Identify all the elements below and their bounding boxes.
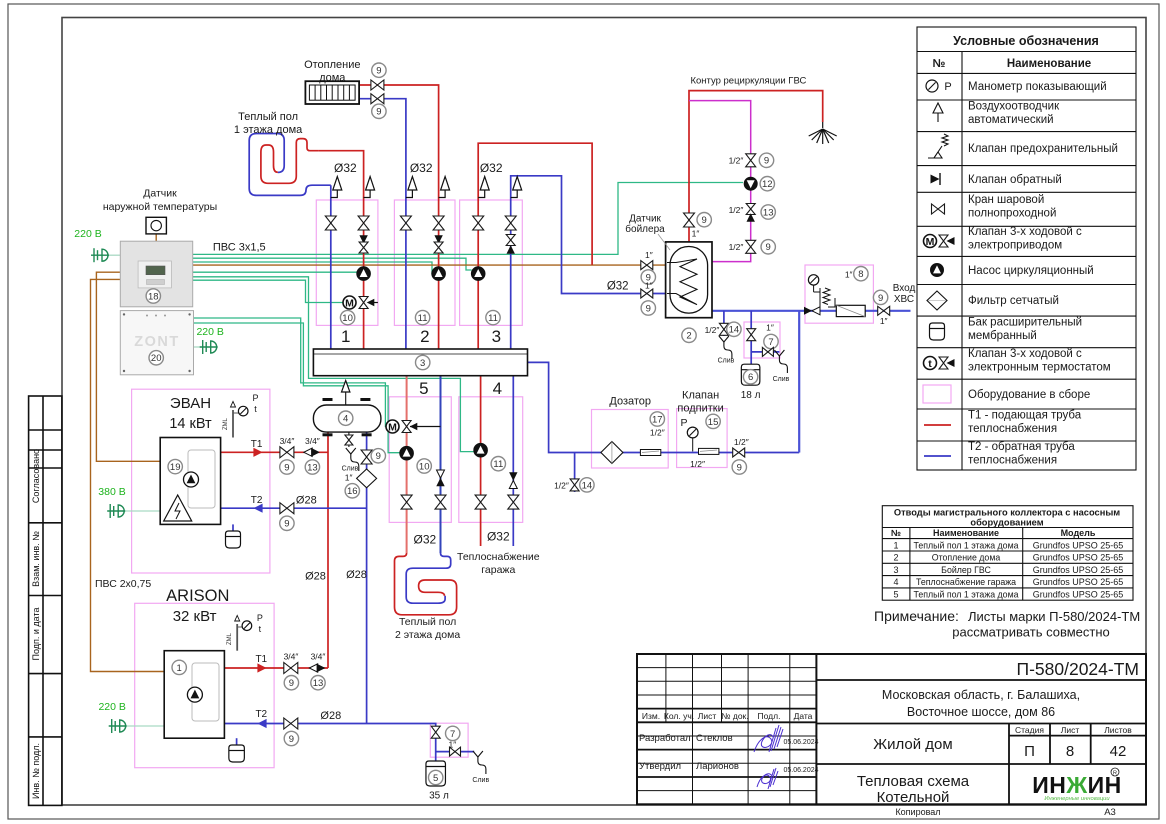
svg-text:10: 10 [419,461,430,472]
pump g5 [400,446,414,460]
pipe boiler trunk T1 [327,432,329,668]
svg-text:18 л: 18 л [741,390,761,401]
valve radiator supply [371,80,384,90]
pipe hvs main [712,310,911,312]
valve riser g1 red [358,216,369,230]
svg-text:Т1 - подающая труба: Т1 - подающая труба [968,410,1082,422]
pipe makeup line [528,362,800,452]
equipment group4 box [459,397,523,523]
label circle 7 [764,334,778,348]
label circle 9 [372,104,386,118]
pipe gvs supply up-over [478,143,592,349]
ARISON expansion tank [229,745,245,762]
svg-text:Фильтр сетчатый: Фильтр сетчатый [968,295,1059,307]
svg-text:мембранный: мембранный [968,330,1037,342]
EVAN P t gauge [232,410,234,438]
label circle 9 [873,290,887,304]
svg-text:рассматривать совместно: рассматривать совместно [952,625,1110,640]
svg-text:9: 9 [376,107,381,118]
svg-text:Теплый пол 1 этажа дома: Теплый пол 1 этажа дома [913,590,1018,600]
svg-text:Подп. и дата: Подп. и дата [31,607,41,660]
svg-text:11: 11 [418,313,428,324]
pipe boiler trunk T2 [366,432,368,723]
ARISON P t gauge [236,624,238,651]
svg-text:подпитки: подпитки [677,403,723,415]
hydro separator 4 [313,405,381,432]
ZONT unit 20 [120,311,193,375]
svg-text:Модель: Модель [1061,528,1096,538]
legend table Условные обозначения [917,27,1136,470]
legend sym manometer [926,80,938,92]
svg-text:электроприводом: электроприводом [968,240,1062,252]
valve evan T2 [280,503,294,514]
svg-text:1/2″: 1/2″ [729,242,744,252]
valve g5 blue [435,495,446,509]
svg-text:Отопление дома: Отопление дома [932,553,1001,563]
svg-text:3/4″: 3/4″ [284,652,299,662]
check valve g5 blue [437,470,445,478]
label circle 9 [641,301,655,315]
svg-text:Т2 - обратная труба: Т2 - обратная труба [968,441,1075,453]
wire pump g5 ctrl [194,323,400,453]
wire evan plug stub [122,510,160,512]
svg-text:M: M [388,421,397,433]
svg-text:1: 1 [893,540,898,550]
svg-text:Согласовано: Согласовано [31,449,41,503]
podpitka gauge [692,438,694,451]
valve g4 red [475,495,486,509]
plug 220V zont [200,340,218,354]
legend sym air vent [933,103,943,122]
svg-text:14: 14 [582,480,593,491]
equipment filter8 box [805,265,873,323]
svg-text:ЭВАН: ЭВАН [170,395,211,412]
svg-text:11: 11 [488,313,498,324]
svg-text:5: 5 [893,590,898,600]
svg-text:P: P [252,393,258,403]
wire controller plug stub [109,254,120,256]
svg-text:1/2″: 1/2″ [650,428,665,438]
check valve g4 blue [509,472,517,480]
check valve evan T1 [304,448,312,456]
svg-text:Клапан обратный: Клапан обратный [968,174,1062,186]
pipe arison T2 and tank5 [224,724,435,762]
svg-text:1″: 1″ [645,281,653,291]
svg-text:Бойлер ГВС: Бойлер ГВС [941,565,991,575]
svg-text:Кол. уч.: Кол. уч. [664,711,694,721]
label circle 8 [854,267,868,281]
check valve g1 red [359,235,367,243]
legend sym T2 line [924,455,951,457]
svg-text:9: 9 [289,734,294,745]
wire pump g2 ctrl [193,262,432,274]
svg-text:Слив: Слив [773,376,790,383]
svg-text:5: 5 [419,379,428,398]
wire mvalve g1 ctrl [193,280,346,302]
svg-text:4: 4 [493,379,502,398]
wire zont plug stub [194,346,202,348]
svg-text:Контур рециркуляции ГВС: Контур рециркуляции ГВС [690,76,806,87]
svg-text:1: 1 [177,663,182,674]
valve magenta 9b [746,240,756,253]
valve gvs hot in [641,261,653,270]
svg-text:42: 42 [1110,743,1127,760]
label circle 9 [759,153,773,167]
pipe floor1 return riser [330,185,332,349]
svg-text:Наименование: Наименование [933,528,999,538]
pipe tank6 branch [750,311,752,364]
label circle 9 [284,731,298,745]
svg-text:2: 2 [686,331,691,342]
wire pump g3 ctrl [193,258,472,270]
svg-text:1″: 1″ [345,473,353,483]
svg-text:Подл.: Подл. [758,711,781,721]
svg-text:6: 6 [748,372,753,383]
pipe evan T1 [221,451,328,453]
svg-text:Дата: Дата [794,711,813,721]
label circle 10 [417,459,431,473]
left stamp column [29,396,62,805]
svg-text:Ø32: Ø32 [607,281,629,293]
svg-text:Московская область, г. Балаших: Московская область, г. Балашиха, [882,688,1080,702]
EVAN T2 arrow [253,504,262,513]
equipment valve7 box [744,322,780,358]
valve tank5 [431,726,440,738]
valve g5 red [401,495,412,509]
sliv hook tank5 [473,751,486,774]
equipment EVAN box [132,389,270,573]
svg-text:ARISON: ARISON [166,587,229,605]
pipe group5 riser blue [440,376,442,553]
shower symbol [809,122,837,144]
valve evan T1 [280,447,294,458]
equipment dozator box [592,410,669,469]
svg-text:32 кВт: 32 кВт [173,608,217,625]
svg-text:3: 3 [420,358,425,369]
wire to ARISON boiler [91,279,165,671]
controller 18 [120,241,192,307]
ARISON T2 arrow [257,719,266,728]
svg-text:T2: T2 [251,495,263,506]
svg-text:4: 4 [893,577,898,587]
label circle 9 [697,213,711,227]
svg-text:9: 9 [702,215,707,226]
label circle 14 [727,322,741,336]
dozator device [640,450,660,456]
svg-text:1″: 1″ [645,250,653,260]
svg-text:P: P [944,81,951,93]
svg-text:17: 17 [652,414,663,425]
svg-text:ХВС: ХВС [894,294,914,305]
svg-text:M: M [926,236,935,248]
svg-text:3/4″: 3/4″ [280,436,295,446]
label circle 9 [284,676,298,690]
label circle 20 [149,351,163,365]
svg-text:15: 15 [708,417,719,428]
svg-text:Лист: Лист [698,711,717,721]
pump g4 [474,443,488,457]
valve on separator return [361,450,372,464]
separator flanges [323,400,372,435]
label circle 7 [446,726,460,740]
svg-text:Теплый пол: Теплый пол [399,616,456,628]
svg-text:Ø28: Ø28 [305,571,326,583]
valve 7 top [747,329,756,341]
svg-text:ZML: ZML [223,417,229,430]
label circle 9 [280,460,294,474]
label circle 15 [706,414,720,428]
separator drain sliv [346,448,359,471]
svg-text:4: 4 [343,414,348,425]
svg-text:Grundfos UPSO 25-65: Grundfos UPSO 25-65 [1033,565,1124,575]
valve riser g3 blue [505,216,516,230]
svg-text:1/2″: 1/2″ [729,156,744,166]
sliv hook 14 [719,336,732,359]
svg-text:Насос циркуляционный: Насос циркуляционный [968,265,1094,277]
svg-text:3/4″: 3/4″ [305,436,320,446]
legend sym safety valve [928,134,948,158]
svg-text:220 В: 220 В [196,326,223,338]
svg-text:Бак расширительный: Бак расширительный [968,317,1082,329]
pipe gvs tank feed [511,176,666,349]
legend sym T1 line [924,424,951,426]
label circle 9 [280,516,294,530]
label circle 9 [732,460,746,474]
tank 5 35l [426,761,446,786]
wire to EVAN boiler [96,272,160,461]
svg-text:Теплый пол 1 этажа дома: Теплый пол 1 этажа дома [913,540,1018,550]
svg-text:1/2″: 1/2″ [554,480,569,490]
title block [637,654,1146,804]
svg-text:А3: А3 [1104,807,1116,818]
svg-text:теплоснабжения: теплоснабжения [968,455,1057,467]
svg-text:5: 5 [433,773,438,784]
svg-text:220 В: 220 В [98,701,125,713]
svg-text:18: 18 [148,291,159,302]
svg-text:Копировал: Копировал [895,807,940,817]
label circle 13 [305,460,319,474]
valve riser g2 blue [400,216,411,230]
svg-text:35 л: 35 л [429,791,449,802]
check valve g2 red [434,235,442,243]
svg-text:оборудованием: оборудованием [970,517,1043,527]
svg-text:Утвердил: Утвердил [639,761,681,772]
label circle 19 [168,459,182,473]
valve sliv 14 [719,323,728,335]
pipe arison T1 [224,667,328,669]
signatures [754,725,783,789]
svg-text:7: 7 [768,337,773,348]
svg-text:13: 13 [313,678,324,689]
svg-text:9: 9 [878,293,883,304]
outdoor temp sensor [146,217,166,234]
svg-text:T1: T1 [255,654,267,665]
svg-text:13: 13 [307,462,318,473]
check valve arison T1 [309,664,317,672]
label circle 10 [340,310,354,324]
sliv hook tank6 [774,350,787,373]
label circle 3 [416,355,430,369]
pipe floor1 coil blue [249,134,331,196]
svg-text:П-580/2024-ТМ: П-580/2024-ТМ [1017,659,1140,679]
svg-text:наружной температуры: наружной температуры [103,201,217,213]
valve riser g2 red [433,216,444,230]
svg-text:теплоснабжения: теплоснабжения [968,423,1057,435]
svg-text:1/2″: 1/2″ [729,205,744,215]
svg-text:Ø32: Ø32 [334,161,357,175]
svg-text:автоматический: автоматический [968,114,1054,126]
svg-text:Вход: Вход [893,283,916,294]
3way valve g5 [410,426,441,428]
pipe radiator supply [359,85,439,349]
svg-text:Восточное шоссе, дом 86: Восточное шоссе, дом 86 [907,705,1055,719]
svg-text:14 кВт: 14 кВт [169,416,212,432]
label circle 11 [415,310,429,324]
svg-text:Клапан 3-х ходовой с: Клапан 3-х ходовой с [968,348,1082,360]
pipe hvs vertical [798,311,800,453]
svg-text:Примечание:: Примечание: [874,608,959,624]
svg-text:ПВС 3x1,5: ПВС 3x1,5 [213,242,266,254]
wire arison plug stub [124,725,164,727]
svg-text:Наименование: Наименование [1007,58,1091,70]
svg-text:Ø28: Ø28 [346,569,367,581]
valve gvs top [684,213,695,227]
EVAN T1 arrow [253,448,262,457]
legend sym 3way thermostat valve [924,357,937,370]
legend sym filter [927,291,947,310]
svg-text:1″: 1″ [845,269,853,279]
svg-text:2: 2 [420,327,429,346]
svg-text:05.06.2024: 05.06.2024 [783,739,818,746]
svg-text:1″: 1″ [766,323,774,333]
pipe evan tank stub [232,524,234,531]
separator drain valve [348,432,350,447]
svg-text:№: № [891,528,901,538]
pipe group4 riser red [480,376,482,546]
hvs filter cylinder [836,305,865,316]
svg-text:3: 3 [492,327,501,346]
svg-text:Теплоснабжение: Теплоснабжение [457,551,540,563]
logo INGIN [1032,768,1122,802]
svg-text:№ док.: № док. [721,711,748,721]
svg-text:Ø32: Ø32 [487,530,510,544]
valve riser g3 red [473,216,484,230]
svg-text:1: 1 [341,327,350,346]
svg-text:Жилой дом: Жилой дом [873,736,952,753]
svg-text:Условные обозначения: Условные обозначения [953,34,1099,48]
pump outlets table [882,506,1133,601]
svg-text:Ø32: Ø32 [410,161,433,175]
svg-text:1/2″: 1/2″ [690,459,705,469]
svg-text:2: 2 [893,553,898,563]
wire pump g1 ctrl [193,271,357,273]
svg-text:ПВС 2x0,75: ПВС 2x0,75 [95,578,151,590]
svg-text:T1: T1 [251,439,263,450]
svg-text:Grundfos UPSO 25-65: Grundfos UPSO 25-65 [1033,553,1124,563]
label circle 11 [491,457,505,471]
pump EVAN [184,472,199,487]
svg-text:Инв. № подл.: Инв. № подл. [31,743,41,799]
tank 6 18l [741,364,760,385]
legend sym check valve [931,175,940,184]
svg-text:19: 19 [170,462,181,473]
valve arison T2 [284,718,298,729]
label circle 9 [371,449,385,463]
svg-text:8: 8 [1066,743,1074,760]
pipe radiator return [359,99,406,349]
pipe group4 riser blue [512,376,514,546]
plug 220V arison [109,719,127,733]
svg-text:1/2″: 1/2″ [705,325,720,335]
svg-text:Листы марки П-580/2024-ТМ: Листы марки П-580/2024-ТМ [968,609,1140,624]
svg-text:P: P [680,417,687,429]
svg-text:гаража: гаража [481,564,515,576]
svg-text:9: 9 [376,66,381,77]
radiator Отопление дома [305,81,359,104]
svg-text:Взам. инв. №: Взам. инв. № [31,531,41,587]
svg-text:Grundfos UPSO 25-65: Grundfos UPSO 25-65 [1033,577,1124,587]
svg-text:Клапан предохранительный: Клапан предохранительный [968,143,1118,155]
wire pump12 ctrl [193,183,743,255]
pipe gvs recirculation magenta [689,101,751,262]
svg-text:12: 12 [762,179,773,190]
svg-text:9: 9 [764,156,769,167]
svg-text:M: M [345,297,354,309]
label circle 2 [682,328,696,342]
equipment group2 box [394,200,455,325]
svg-text:9: 9 [284,519,289,530]
svg-text:бойлера: бойлера [625,223,665,235]
svg-text:Grundfos UPSO 25-65: Grundfos UPSO 25-65 [1033,590,1124,600]
wire gvs boiler line (brown) [193,264,666,266]
hvs pressure reducer [819,288,821,311]
svg-text:Ø28: Ø28 [320,710,341,722]
pump g2 [432,267,446,281]
svg-text:Манометр показывающий: Манометр показывающий [968,81,1107,93]
svg-text:Ø28: Ø28 [296,494,317,506]
legend sym expansion tank [930,323,945,340]
pump ARISON [187,687,202,702]
valve gvs cold in [641,289,653,298]
svg-text:9: 9 [646,303,651,314]
svg-text:Клапан 3-х ходовой с: Клапан 3-х ходовой с [968,226,1082,238]
legend sym 3way motor valve [924,235,937,248]
collector manifold [313,349,527,376]
label circle 1 [172,660,186,674]
svg-text:Grundfos UPSO 25-65: Grundfos UPSO 25-65 [1033,540,1124,550]
svg-text:20: 20 [151,353,162,364]
svg-text:П: П [1024,743,1035,760]
pipe floor1 coil red [261,139,319,184]
svg-text:1/2″: 1/2″ [734,437,749,447]
pipe tank5 drain branch [436,751,475,753]
svg-text:Теплоснабжение гаража: Теплоснабжение гаража [916,577,1016,587]
svg-text:Слив: Слив [472,777,489,784]
wire pump g4 ctrl [193,277,474,452]
pipe group5 riser red [406,376,408,553]
air vents risers [331,177,342,198]
valve magenta 9a [746,154,756,167]
valve radiator return [371,94,384,104]
label circle 16 [345,484,359,498]
hvs inlet valve [878,306,890,315]
svg-text:ИНЖИН: ИНЖИН [1032,772,1122,798]
legend sym pump [931,264,944,277]
pipe floor2 coil red [395,553,457,615]
equipment podpitka box [677,409,728,468]
svg-text:Теплый пол: Теплый пол [238,111,298,123]
pump 12 recirculation [744,177,757,190]
